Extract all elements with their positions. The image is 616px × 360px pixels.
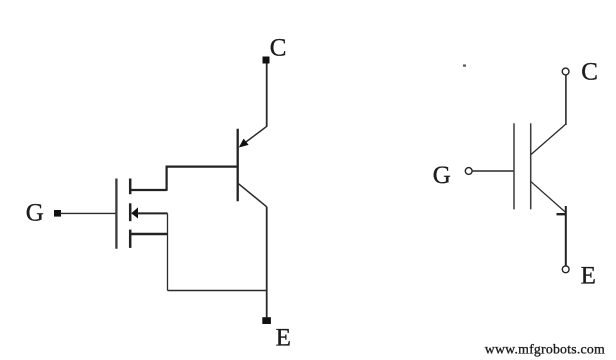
wire collector vertical IGBT [565, 75, 567, 125]
BJT Q1 base bar [237, 129, 239, 201]
wire emitter vertical IGBT [565, 206, 567, 266]
MOSFET M1 drain stub [129, 179, 132, 195]
wire body lead [137, 212, 168, 214]
stray dot [463, 65, 466, 67]
wire source down [167, 213, 169, 290]
BJT Q1 emitter arrowhead [239, 139, 249, 148]
terminal E circle [562, 266, 569, 273]
wire drain step up [166, 167, 168, 191]
svg-text:G: G [26, 200, 44, 227]
svg-text:E: E [581, 263, 596, 290]
svg-text:G: G [433, 162, 451, 189]
IGBT emitter diagonal [531, 182, 566, 213]
wire drain to base [166, 166, 238, 168]
wire G lead IGBT [472, 170, 514, 172]
wire collector to E terminal [266, 207, 268, 318]
svg-text:C: C [581, 59, 598, 86]
wire C terminal vertical [266, 63, 268, 127]
wire G to gate [60, 212, 116, 214]
terminal C square left [263, 57, 270, 64]
terminal G circle [465, 168, 472, 175]
terminal E square left [262, 317, 271, 324]
svg-text:C: C [270, 35, 287, 62]
BJT Q1 collector diagonal [239, 184, 267, 207]
MOSFET M1 body arrow [131, 207, 138, 218]
wire bottom to E node [168, 290, 267, 292]
MOSFET M1 gate line [115, 179, 117, 249]
IGBT emitter arrow barb [557, 213, 567, 215]
BJT Q1 emitter diagonal [240, 126, 267, 146]
svg-text:www.mfgrobots.com: www.mfgrobots.com [485, 342, 605, 357]
wire source lead [130, 233, 167, 236]
IGBT channel line [530, 123, 532, 209]
wire drain lead [130, 189, 166, 191]
terminal C circle [562, 68, 569, 75]
svg-text:E: E [276, 325, 291, 352]
IGBT collector diagonal [531, 124, 566, 154]
terminal G square left [54, 210, 61, 217]
MOSFET M1 source stub [129, 230, 132, 248]
IGBT gate line [513, 123, 515, 209]
MOSFET M1 body stub [129, 203, 132, 221]
